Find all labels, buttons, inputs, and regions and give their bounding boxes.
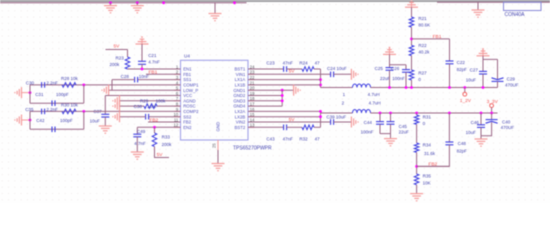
ground C24 [351, 69, 358, 80]
junction network1 left [29, 91, 32, 94]
capacitor C37 10uF [90, 109, 110, 124]
junction top rail B [136, 1, 139, 4]
svg-text:80.6K: 80.6K [418, 23, 430, 28]
svg-text:C43: C43 [266, 137, 275, 142]
wire C44 bottom [379, 124, 381, 133]
wire network1 left bar [29, 85, 31, 103]
wire FB1 [146, 73, 181, 75]
junction network2 left [29, 119, 32, 122]
ground AGND [113, 95, 120, 106]
wire top right rail [437, 1, 550, 3]
inductor L1 4.7uH [343, 84, 380, 97]
wire network1 right bar [83, 85, 85, 103]
capacitor C27 10uF [466, 68, 487, 83]
junction GND3 bus [281, 99, 284, 102]
wire BST2 c [314, 126, 321, 128]
svg-text:10uF: 10uF [466, 130, 477, 135]
resistor R21 80.6K [409, 16, 430, 28]
svg-text:R21: R21 [418, 16, 427, 21]
wire C46 top [480, 113, 482, 125]
wire rail1 a [321, 87, 353, 89]
label 1_2V [460, 98, 472, 104]
wire C22 top [449, 39, 451, 61]
wire top ground rail [0, 2, 247, 4]
svg-text:GND2: GND2 [233, 93, 246, 98]
ground top 1 [104, 3, 117, 13]
capacitor C39 10uF [326, 114, 346, 124]
capacitor C35 2.2nF [25, 107, 58, 114]
junction network2 right [82, 110, 85, 113]
junction 1_2V rail1 [463, 86, 466, 89]
node 3_3V [490, 104, 494, 108]
wire R21 top [411, 7, 413, 17]
junction FB2 node [415, 165, 418, 168]
resistor R22 40.2k [409, 43, 430, 56]
wire R31-R34 [416, 124, 418, 143]
junction C45 rail2 [389, 112, 392, 115]
svg-text:LX1A: LX1A [235, 77, 246, 82]
label FB1 net right [433, 34, 442, 40]
capacitor C22 82pF [446, 60, 468, 72]
capacitor C48 82pF [445, 141, 467, 153]
svg-text:EN1: EN1 [183, 67, 192, 72]
wire VCC [105, 95, 180, 97]
svg-text:VIN2: VIN2 [236, 120, 246, 125]
wire C37 bottom [104, 117, 106, 126]
label 5V net R23 [114, 44, 121, 50]
resistor R28 10k [61, 76, 79, 87]
capacitor C26 100nF [391, 66, 410, 81]
svg-text:LX2B: LX2B [235, 114, 246, 119]
resistor R35 10K [414, 174, 431, 186]
wire C22 bottom [449, 64, 451, 88]
wire R23 top [127, 50, 129, 58]
svg-text:C46: C46 [471, 120, 480, 125]
wire SS1 b [112, 79, 135, 81]
wire C29 bottom [497, 81, 499, 87]
ground ROSC [113, 101, 120, 112]
svg-text:COMP1: COMP1 [183, 83, 199, 88]
ground top 2 [131, 3, 144, 13]
svg-text:C35: C35 [25, 107, 34, 112]
svg-text:C25: C25 [375, 66, 384, 71]
svg-text:GND4: GND4 [233, 104, 246, 109]
wire R35 bottom [416, 185, 418, 194]
junction top rail A [109, 1, 112, 4]
svg-text:COMP2: COMP2 [183, 109, 199, 114]
label TPS65270PWPR [233, 146, 272, 152]
svg-text:BST2: BST2 [235, 125, 246, 130]
svg-text:FB1: FB1 [149, 70, 158, 76]
svg-text:R24: R24 [299, 60, 308, 65]
wire C27C29 link [483, 58, 498, 60]
capacitor C21 4.7nF [138, 53, 160, 64]
svg-text:C40: C40 [502, 120, 511, 125]
svg-text:47: 47 [315, 60, 321, 65]
wire C49 bottom [136, 137, 138, 152]
svg-text:C31: C31 [35, 92, 44, 97]
label FB2 net [149, 118, 158, 124]
svg-text:LOW_P: LOW_P [183, 88, 198, 93]
svg-text:AGND: AGND [183, 98, 195, 103]
wire LX1B [248, 84, 321, 86]
svg-text:4.7nF: 4.7nF [148, 59, 160, 64]
wire SS1 a [138, 79, 181, 81]
wire C39 to gnd [334, 121, 352, 123]
ground above C25 [383, 47, 396, 55]
wire GND1 [248, 89, 294, 91]
label 5V net VIN2 [289, 117, 296, 123]
capacitor C31 100pF [35, 92, 69, 106]
svg-text:C21: C21 [148, 53, 157, 58]
ground below C46 [475, 136, 488, 146]
junction C22 rail1 [448, 86, 451, 89]
svg-text:82pF: 82pF [457, 148, 468, 153]
wire BST2 a [248, 126, 284, 128]
ground below U4 [212, 164, 225, 171]
wire R31 top [416, 113, 418, 115]
wire SS1 down [111, 80, 113, 91]
wire BST2 b [287, 126, 302, 128]
wire LX2A [248, 110, 321, 112]
wire C25 bottom [389, 70, 391, 87]
wire VIN2 [248, 121, 331, 123]
svg-text:U4: U4 [184, 54, 190, 59]
svg-text:2.2nF: 2.2nF [46, 81, 58, 86]
svg-text:TPS65270PWPR: TPS65270PWPR [233, 146, 272, 152]
wire BST1 c [314, 68, 321, 70]
junction EN2-R33 [153, 126, 156, 129]
svg-text:100nF: 100nF [392, 76, 405, 81]
svg-text:22uF: 22uF [399, 129, 410, 134]
svg-text:10uF: 10uF [466, 77, 477, 82]
wire R33 to 5V [155, 147, 170, 158]
wire EN1 [128, 68, 181, 70]
wire rail2 a [321, 112, 353, 114]
svg-text:200k: 200k [162, 142, 173, 147]
svg-text:C24 10uF: C24 10uF [327, 66, 347, 71]
wire rail1 b [371, 87, 498, 89]
svg-text:C22: C22 [457, 60, 466, 65]
connector J CON40A [504, 2, 542, 10]
svg-text:C44: C44 [364, 120, 373, 125]
svg-text:C49: C49 [137, 129, 146, 134]
wire GND4 [248, 105, 282, 107]
svg-text:470UF: 470UF [501, 125, 515, 130]
resistor R33 200k [152, 133, 172, 147]
wire C27 bottom [482, 74, 484, 88]
junction FB1 node [410, 38, 413, 41]
svg-text:LX1B: LX1B [235, 83, 246, 88]
svg-text:C30: C30 [26, 81, 35, 86]
wire 3_3V stub [491, 108, 493, 114]
wire C44C45 link [380, 133, 391, 135]
svg-text:4.7uH: 4.7uH [368, 92, 380, 97]
pins of U4 [174, 64, 256, 150]
svg-text:100pF: 100pF [60, 118, 73, 123]
svg-text:BST1: BST1 [235, 67, 246, 72]
wire COMP1 [30, 84, 181, 86]
wire C45 bottom [390, 124, 392, 133]
wire C45 top [390, 113, 392, 122]
wire network1 bottom [30, 102, 84, 104]
junction LX2B bus [319, 115, 322, 118]
junction LX1B bus [319, 84, 322, 87]
ground SS2 [113, 111, 120, 122]
svg-text:R23: R23 [116, 56, 125, 61]
wire C21 top [141, 44, 143, 61]
svg-text:10nF: 10nF [147, 104, 158, 109]
wire network2 left bar [29, 111, 31, 129]
svg-text:VCC: VCC [183, 93, 192, 98]
svg-text:R30 10k: R30 10k [61, 103, 79, 108]
wire C25 gnd stub [389, 54, 391, 67]
junction C25 rail1 [388, 86, 391, 89]
label 5V net R33 [157, 152, 164, 158]
wire FB2 node right [417, 165, 450, 167]
svg-text:GND: GND [216, 122, 221, 132]
wire C49 top [136, 127, 138, 134]
resistor R23 200k [110, 56, 130, 69]
junction 3_3V rail2 [490, 112, 493, 115]
svg-text:25: 25 [212, 143, 217, 148]
resistor R30 10k [61, 103, 79, 114]
svg-text:GND1: GND1 [233, 88, 246, 93]
wire SS2 b [120, 116, 146, 118]
capacitor C25 22uF [375, 66, 394, 81]
wire network2 bottom [30, 128, 84, 130]
ground below R35 [410, 194, 423, 201]
svg-text:ROSC: ROSC [183, 104, 195, 109]
svg-text:47nF: 47nF [283, 60, 294, 65]
svg-text:5V: 5V [157, 152, 164, 158]
wire GND3 [248, 100, 282, 102]
junction GND2 bus [281, 94, 284, 97]
wire BST1 b [287, 68, 302, 70]
wire BST1 a [248, 68, 284, 70]
wire AGND [120, 100, 181, 102]
wire LOW_P [109, 89, 181, 91]
resistor R27 0 [409, 70, 427, 82]
svg-text:10K: 10K [423, 181, 431, 186]
svg-text:31.6k: 31.6k [424, 151, 436, 156]
svg-text:FB2: FB2 [149, 118, 158, 124]
svg-text:1_2V: 1_2V [460, 98, 472, 104]
wire EN2 [137, 126, 180, 128]
resistor R29 100k [140, 98, 166, 108]
junction R27 rail1 [410, 86, 413, 89]
wire R33 top [154, 127, 156, 133]
svg-text:10uF: 10uF [90, 118, 101, 123]
label CON40A [505, 12, 526, 18]
svg-text:82pF: 82pF [457, 67, 468, 72]
svg-text:2.2nF: 2.2nF [46, 107, 58, 112]
junction LX1A bus [319, 78, 322, 81]
resistor R34 31.6k [414, 143, 435, 156]
inductor L2 4.7uH [342, 100, 381, 113]
wire rail2 b [371, 112, 498, 114]
wire C46 bottom [480, 127, 482, 135]
wire C48 top [448, 113, 450, 142]
svg-text:470UF: 470UF [505, 82, 519, 87]
ground below C45 [384, 134, 397, 146]
wire C40 bottom [481, 122, 492, 136]
ground below C37 [99, 126, 112, 133]
svg-text:SS1: SS1 [183, 77, 192, 82]
capacitor C40 470UF [486, 120, 515, 131]
wire C27 gnd stub [482, 56, 484, 72]
ground network2 left [15, 115, 30, 126]
svg-text:100nF: 100nF [361, 129, 374, 134]
wire SS2 a [149, 116, 181, 118]
wire C26 top [405, 65, 407, 70]
wire GND bus [281, 90, 283, 106]
svg-text:SS2: SS2 [183, 114, 192, 119]
ground above C21 [136, 36, 149, 44]
capacitor C23 47nF [266, 60, 293, 71]
capacitor C30 2.2nF [26, 81, 58, 88]
svg-text:100pF: 100pF [56, 92, 69, 97]
svg-text:R33: R33 [162, 135, 171, 140]
wire LX1A [248, 79, 321, 81]
junction network1 right [82, 84, 85, 87]
svg-text:GND3: GND3 [233, 98, 246, 103]
wire GND2 [248, 95, 282, 97]
svg-text:100k: 100k [156, 98, 167, 103]
capacitor C49 4.7nF [133, 129, 146, 146]
wire R22-R27 [411, 56, 413, 70]
wire R34-FB2 [416, 152, 418, 174]
svg-text:22uF: 22uF [380, 76, 391, 81]
junction C26 rail1 [405, 86, 408, 89]
junction C44 rail2 [379, 112, 382, 115]
junction top rail C [162, 1, 165, 4]
wire ROSC a [157, 105, 181, 107]
wire C37 top [104, 96, 106, 115]
label 5V net VIN1 [289, 68, 296, 74]
wire FB1 node right [412, 38, 450, 40]
wire COMP2 [30, 110, 181, 112]
resistor R24 47 [299, 60, 320, 71]
capacitor C29 470UF [492, 77, 519, 88]
wire FB2 [148, 121, 181, 123]
ground LOW_P [102, 85, 109, 96]
svg-text:C48: C48 [458, 141, 467, 146]
wire network2 right bar [83, 111, 85, 129]
label FB2 net right [428, 161, 437, 167]
wire U4 GND pin down [217, 150, 219, 164]
wire LX2B [248, 116, 321, 118]
ground below C49 [131, 152, 144, 159]
capacitor C24 10uF [327, 66, 347, 77]
wire VIN1 [248, 73, 331, 75]
wire LX bus1 [320, 69, 322, 88]
svg-text:R32: R32 [299, 137, 308, 142]
svg-text:5V: 5V [289, 68, 296, 74]
resistor R31 0 [414, 115, 431, 127]
wire 5V stub R23 [106, 49, 128, 51]
svg-text:C27: C27 [470, 68, 479, 73]
capacitor C38 10nF [134, 104, 158, 120]
svg-text:C23: C23 [266, 60, 275, 65]
svg-text:40.2k: 40.2k [418, 49, 430, 54]
ground C39 [351, 117, 358, 128]
svg-text:R22: R22 [418, 43, 427, 48]
ground above C27 [477, 48, 490, 56]
svg-text:C42: C42 [36, 118, 45, 123]
svg-text:4.7nF: 4.7nF [134, 141, 146, 146]
wire C21 bottom [141, 64, 143, 69]
ground above R21 [405, 0, 418, 7]
svg-text:R35: R35 [423, 174, 432, 179]
label 3_3V [487, 99, 499, 105]
svg-text:47: 47 [315, 137, 321, 142]
junction C27 rail1 [482, 86, 485, 89]
label FB1 net [149, 70, 158, 76]
wire C24 to gnd [334, 73, 352, 75]
wire 1_2V stub [464, 88, 466, 93]
junction R31 rail2 [415, 112, 418, 115]
svg-text:200k: 200k [110, 62, 121, 67]
svg-text:4.7uH: 4.7uH [369, 100, 381, 105]
capacitor C28 10nF [121, 74, 150, 82]
junction C46 rail2 [480, 112, 483, 115]
svg-text:FB1: FB1 [183, 72, 191, 77]
svg-text:CON40A: CON40A [505, 12, 526, 18]
svg-text:C26: C26 [391, 66, 400, 71]
resistor R32 47 [299, 125, 320, 142]
wire C40 top [491, 113, 493, 120]
ground network1 left [15, 87, 30, 98]
capacitor C44 100nF [361, 120, 384, 134]
ground GND1 [294, 85, 301, 96]
svg-text:C38: C38 [134, 104, 143, 109]
wire ROSC b [120, 105, 145, 107]
svg-text:FB2: FB2 [183, 120, 191, 125]
wire C44 top [379, 113, 381, 122]
svg-text:R31: R31 [423, 115, 432, 120]
junction C21-EN1 [141, 68, 144, 71]
svg-text:R29: R29 [140, 98, 149, 103]
IC U4 TPS65270PWPR body [181, 60, 249, 140]
wire R27 bottom [411, 80, 413, 88]
svg-text:C29: C29 [507, 77, 516, 82]
wire LX bus2 [320, 111, 322, 127]
svg-text:VIN1: VIN1 [236, 72, 246, 77]
svg-text:47nF: 47nF [283, 137, 294, 142]
svg-text:5V: 5V [289, 117, 296, 123]
svg-text:C39 10uF: C39 10uF [326, 114, 346, 119]
svg-text:FB1: FB1 [433, 34, 442, 40]
node 1_2V [463, 92, 467, 96]
junction top rail D [233, 1, 236, 4]
wire C29 top [497, 59, 499, 79]
ground top 3 [209, 3, 222, 21]
wire C25C26 link [390, 64, 407, 66]
ground top right [472, 2, 485, 17]
svg-text:R34: R34 [423, 143, 432, 148]
capacitor C45 22uF [387, 122, 410, 135]
junction C48 rail2 [448, 112, 451, 115]
svg-text:R27: R27 [418, 70, 427, 75]
capacitor C42 100pF [36, 118, 73, 132]
svg-text:5V: 5V [114, 44, 121, 50]
junction LX2A bus [319, 110, 322, 113]
svg-text:EN2: EN2 [183, 125, 192, 130]
label U4 [184, 54, 190, 59]
svg-text:C28: C28 [121, 74, 130, 79]
svg-text:10nF: 10nF [139, 74, 150, 79]
